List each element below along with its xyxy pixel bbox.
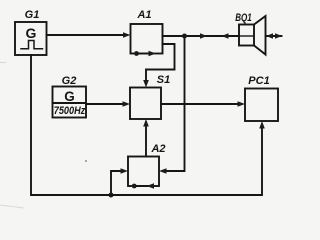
switch S1 [130, 74, 170, 119]
svg-text:S1: S1 [157, 74, 170, 86]
wire G1 to A1 [47, 32, 131, 38]
wire S1 to PC1 [161, 101, 245, 107]
wire A2 top to S1 bottom [143, 119, 149, 157]
counter PC1 [245, 75, 278, 121]
amplifier A2 [128, 143, 166, 189]
wire A1 to BQ1 with opposing arrowheads [163, 33, 240, 38]
wire G2 to S1 [86, 101, 130, 107]
sound wave double arrow right of BQ1 [266, 33, 282, 38]
generator G2 [53, 75, 87, 118]
node: junction on A1 output [182, 34, 187, 39]
svg-text:BQ1: BQ1 [235, 12, 252, 24]
paper background [0, 0, 283, 211]
svg-text:G: G [64, 89, 75, 104]
loudspeaker BQ1 [235, 12, 265, 55]
svg-text:PC1: PC1 [248, 75, 269, 87]
svg-text:G2: G2 [62, 75, 77, 87]
amplifier A1 [131, 9, 163, 56]
svg-text:7500Hz: 7500Hz [54, 105, 86, 117]
wire bottom bus from G1 to PC1 [31, 55, 265, 195]
svg-text:A2: A2 [150, 143, 165, 155]
wire junction down to A2 right input [159, 36, 185, 174]
node: junction on bottom bus [109, 193, 114, 198]
wire bus junction up to A2 left input [111, 168, 128, 195]
scan smudges (decorative) [85, 160, 87, 162]
svg-text:G1: G1 [25, 9, 40, 21]
wire A1 lower output to S1 top [143, 44, 174, 88]
svg-text:G: G [26, 25, 37, 41]
svg-text:A1: A1 [136, 9, 151, 21]
generator G1 [15, 9, 47, 55]
